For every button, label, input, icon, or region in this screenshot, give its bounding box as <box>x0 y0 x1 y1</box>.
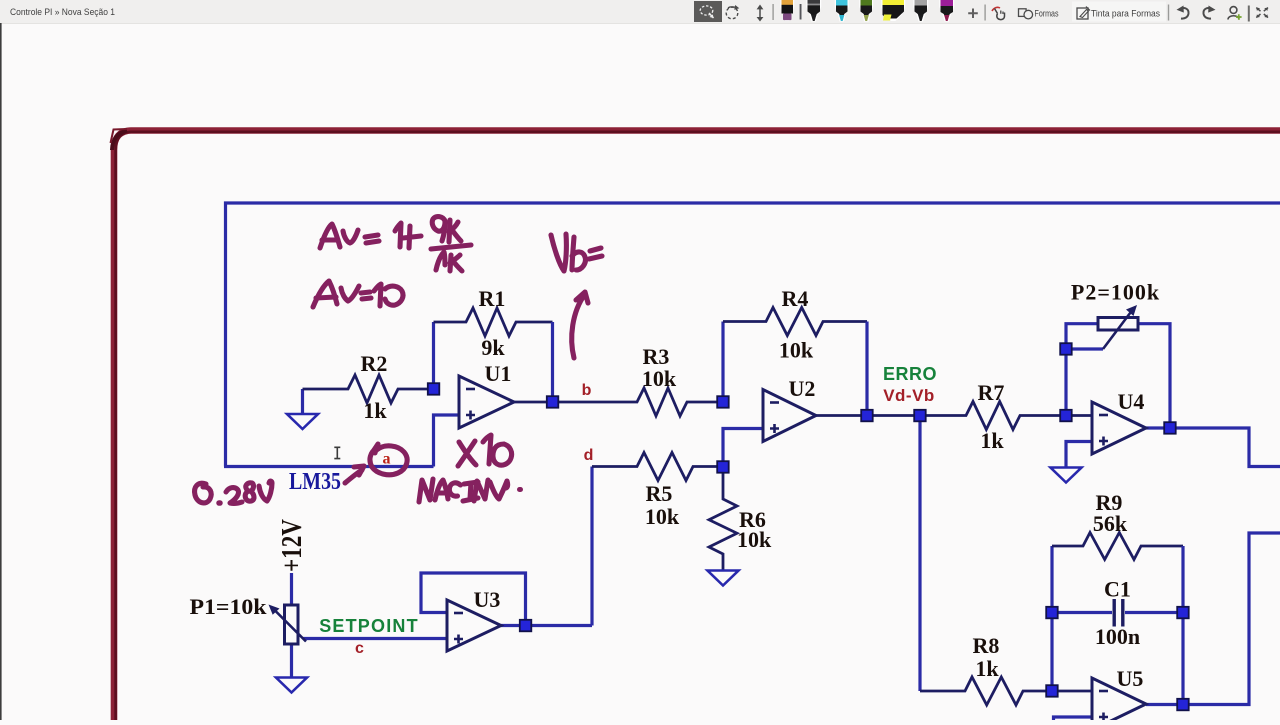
svg-text:ERRO: ERRO <box>883 364 937 384</box>
svg-text:P2=100k: P2=100k <box>1071 280 1160 305</box>
svg-text:C1: C1 <box>1104 577 1131 602</box>
svg-text:10k: 10k <box>642 366 677 391</box>
svg-text:P1=10k: P1=10k <box>190 594 268 619</box>
svg-text:Formas: Formas <box>1035 9 1059 20</box>
svg-text:U1: U1 <box>485 361 512 386</box>
svg-text:d: d <box>584 447 594 464</box>
svg-text:a: a <box>383 451 391 468</box>
svg-text:LM35: LM35 <box>289 469 341 495</box>
svg-text:10k: 10k <box>779 338 814 363</box>
svg-text:9k: 9k <box>481 335 505 360</box>
svg-text:U5: U5 <box>1117 666 1144 691</box>
svg-text:Vd-Vb: Vd-Vb <box>883 386 935 405</box>
svg-text:U3: U3 <box>474 587 501 612</box>
svg-text:Tinta para Formas: Tinta para Formas <box>1091 9 1160 20</box>
svg-text:c: c <box>355 640 364 657</box>
svg-text:R1: R1 <box>479 286 506 311</box>
svg-text:R4: R4 <box>782 286 809 311</box>
svg-text:10k: 10k <box>737 527 772 552</box>
svg-text:1k: 1k <box>980 428 1004 453</box>
svg-text:R2: R2 <box>361 351 388 376</box>
svg-text:SETPOINT: SETPOINT <box>319 616 419 636</box>
svg-text:R5: R5 <box>646 481 673 506</box>
svg-text:R8: R8 <box>973 633 1000 658</box>
svg-text:56k: 56k <box>1093 511 1128 536</box>
svg-text:+12V: +12V <box>277 519 308 572</box>
svg-text:Controle PI » Nova Seção 1: Controle PI » Nova Seção 1 <box>10 7 115 18</box>
svg-text:b: b <box>582 382 592 399</box>
svg-text:1k: 1k <box>975 656 999 681</box>
svg-text:10k: 10k <box>645 504 680 529</box>
svg-text:U4: U4 <box>1118 389 1145 414</box>
svg-text:U2: U2 <box>789 376 816 401</box>
svg-text:100n: 100n <box>1095 624 1140 649</box>
svg-text:R7: R7 <box>978 380 1005 405</box>
svg-text:1k: 1k <box>363 398 387 423</box>
